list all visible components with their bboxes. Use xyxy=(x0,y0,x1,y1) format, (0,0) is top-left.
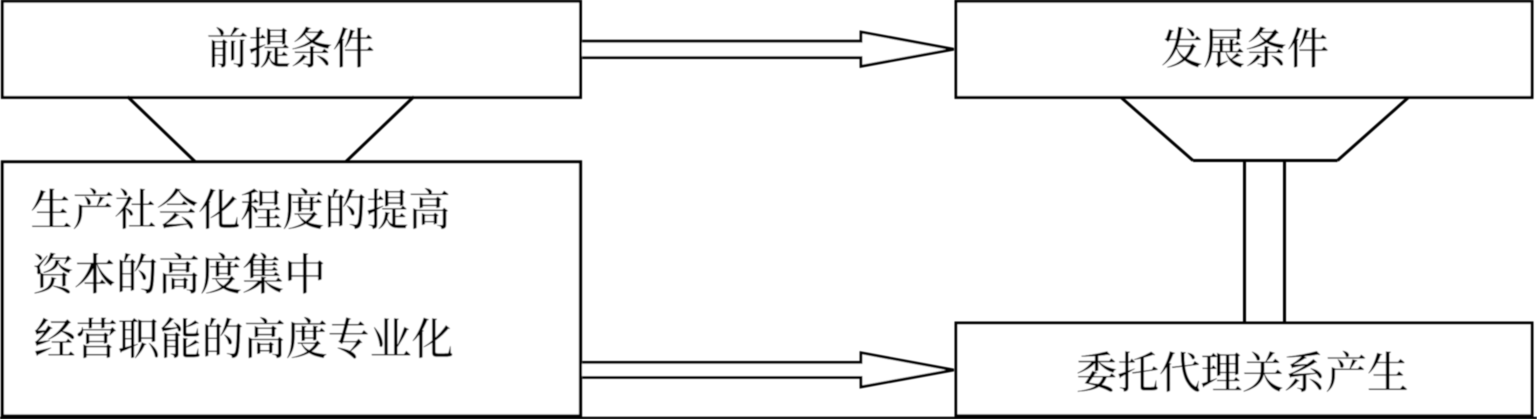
bottom rule xyxy=(0,417,1537,419)
wire: left connector right diagonal xyxy=(345,97,414,163)
wire: double vertical left xyxy=(1243,161,1246,324)
arrow: bottom double-line arrow xyxy=(582,353,954,387)
wire: right funnel left diagonal xyxy=(1121,97,1193,160)
label: 发展条件 xyxy=(1162,27,1328,68)
wire: left connector left diagonal xyxy=(127,97,196,163)
label: 生产社会化程度的提高 xyxy=(32,188,449,229)
wire: right funnel bottom segment xyxy=(1193,159,1338,162)
box: left list (bottom-left) xyxy=(2,162,580,416)
box: 发展条件 (top-right) xyxy=(956,1,1532,97)
wire: double vertical right xyxy=(1283,161,1286,324)
label: 前提条件 xyxy=(208,27,373,68)
box: 前提条件 (top-left) xyxy=(2,1,580,97)
box: 委托代理关系产生 (bottom-right) xyxy=(956,323,1532,416)
wire: right funnel right diagonal xyxy=(1338,97,1409,160)
label: 委托代理关系产生 xyxy=(1077,351,1407,392)
label: 资本的高度集中 xyxy=(34,253,323,294)
arrow: top double-line arrow xyxy=(582,32,954,66)
label: 经营职能的高度专业化 xyxy=(35,317,452,359)
